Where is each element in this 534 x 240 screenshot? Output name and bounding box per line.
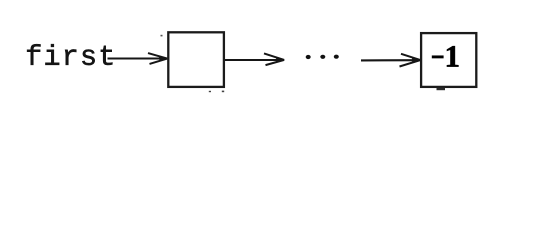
node -1 value label digit	[447, 46, 458, 66]
node 1 box	[168, 32, 224, 87]
node -1 box	[421, 33, 476, 87]
scan speck near node 1 left	[161, 35, 163, 37]
scan speck under node 1 corner	[222, 91, 224, 93]
scan blob under node -1	[437, 88, 446, 91]
wire arrow from first to node 1	[108, 57, 167, 59]
scan speck under node 1	[209, 91, 211, 92]
node first label	[27, 44, 112, 65]
node ellipsis dots	[306, 55, 311, 59]
wire arrow from node 1 to dots	[225, 59, 283, 61]
wire arrow from dots to node -1	[361, 59, 419, 61]
node -1 value label minus	[432, 55, 444, 58]
